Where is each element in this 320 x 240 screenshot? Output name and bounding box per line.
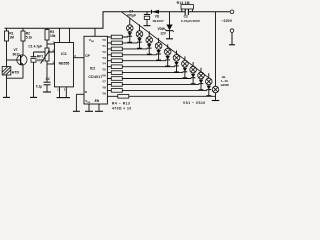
resistor R3 <box>45 30 49 41</box>
wire output line Y5 <box>107 66 174 68</box>
resistor R13 <box>111 89 122 93</box>
lamp HL8 <box>192 62 194 66</box>
wire gate VS6 <box>173 66 176 67</box>
thyristor VS7 <box>184 66 186 69</box>
wire RP1 to C2 <box>46 61 48 82</box>
thyristor VS8 <box>192 72 194 75</box>
timer U IC1 NE555 <box>55 43 74 87</box>
svg-text:IC2: IC2 <box>90 67 96 71</box>
resistor R6 <box>111 47 122 51</box>
wire rail to lamp HL <box>215 12 217 86</box>
resistor R1 <box>5 31 9 41</box>
svg-text:1N4007: 1N4007 <box>152 19 164 23</box>
svg-text:≤20W: ≤20W <box>221 83 229 87</box>
lamp HL (common) <box>212 86 219 93</box>
counter U IC2 CD4017 <box>84 36 107 104</box>
junction cathode VS8 <box>191 83 196 85</box>
ground (HTD) <box>3 96 10 98</box>
wire R1 node to VT base <box>7 59 21 61</box>
wire cathode VS8 <box>192 78 194 85</box>
wire C1 to ground <box>33 62 35 97</box>
svg-text:470μF: 470μF <box>127 13 136 17</box>
thyristor VS6 <box>176 60 178 63</box>
svg-text:CD4017: CD4017 <box>88 75 102 79</box>
wire C1 top <box>33 52 35 57</box>
svg-text:IC1: IC1 <box>61 52 67 56</box>
wire R3 to RP1 <box>46 40 48 48</box>
svg-text:C2: C2 <box>46 77 50 81</box>
wire cathode VS6 <box>176 66 178 73</box>
svg-text:EN: EN <box>95 99 100 103</box>
resistor R7 <box>111 53 122 57</box>
svg-text:CP: CP <box>85 54 90 58</box>
resistor R10 <box>111 71 122 75</box>
diode VD 1N4007 <box>152 10 159 14</box>
wire cathode VS1 <box>129 36 131 43</box>
thyristor VS4 <box>158 48 160 51</box>
svg-text:15k: 15k <box>50 34 56 38</box>
ground (R pin) <box>73 110 80 112</box>
capacitor C1 (electrolytic) <box>31 56 37 58</box>
resistor R9 <box>111 65 122 69</box>
svg-text:Y1: Y1 <box>102 44 106 48</box>
thyristor VS5 <box>167 54 169 57</box>
wire gate VS9 <box>197 84 200 85</box>
svg-text:Y6: Y6 <box>102 74 106 78</box>
lamp HL1 <box>129 18 131 25</box>
ground (VDW) <box>166 38 173 40</box>
wire cathode VS7 <box>184 72 186 79</box>
lamp HL5 <box>167 44 169 48</box>
svg-text:VDW: VDW <box>158 27 165 31</box>
wire node to IC1 pin 7 <box>47 43 55 45</box>
zener diode VDW 12V <box>169 12 171 25</box>
wire output line Y1 <box>107 42 137 44</box>
resistor R4 <box>111 35 122 39</box>
wire cathode VS3 <box>148 48 150 55</box>
ground (C2) <box>43 91 51 93</box>
junction cathode VS9 <box>199 89 204 91</box>
svg-text:5.1k: 5.1k <box>26 36 33 40</box>
AC terminal bottom prong <box>230 29 234 33</box>
capacitor C3 0.47uF/400V (series) <box>184 9 186 15</box>
wire R3 top stub <box>46 28 48 29</box>
ground (IC1 pin1) <box>57 97 71 99</box>
thyristor VS2 <box>139 36 141 39</box>
wire IC1 pin4 stub to rail <box>59 28 61 42</box>
wire VT emitter to HTD stem <box>7 77 24 79</box>
junction cathode VS2 <box>137 47 142 49</box>
wire node to IC1 pin 2 <box>47 63 55 65</box>
ground (C4) <box>144 25 151 27</box>
lamp HL7 <box>184 56 186 60</box>
svg-text:C1 4.7μF: C1 4.7μF <box>28 45 42 49</box>
svg-text:VS1 ~ VS10: VS1 ~ VS10 <box>183 101 206 105</box>
potentiometer RP1 <box>45 48 49 61</box>
svg-text:Y3: Y3 <box>102 56 106 60</box>
thyristor VS3 <box>148 42 150 45</box>
junction cathode VS4 <box>156 59 161 61</box>
wire R1 bottom to HTD <box>6 41 8 67</box>
ground (EN) <box>95 110 103 112</box>
thyristor VS10 <box>208 84 210 87</box>
wire R1 top stub <box>6 28 8 31</box>
wire gate VS10 <box>205 90 208 91</box>
svg-text:Y9: Y9 <box>102 91 106 95</box>
wire gate VS7 <box>181 72 184 73</box>
resistor R11 <box>111 77 122 81</box>
junction cathode VS1 <box>127 41 132 43</box>
wire cathode VS5 <box>167 60 169 67</box>
wire gate VS8 <box>190 78 193 79</box>
wire gate VS5 <box>164 60 167 61</box>
junction cathode VS10 <box>206 95 211 97</box>
wire output line Y7 <box>107 78 190 80</box>
svg-text:0.1μ: 0.1μ <box>36 85 42 89</box>
wire gate VS3 <box>146 48 149 49</box>
resistor R8 <box>111 59 122 63</box>
svg-text:470Ω × 10: 470Ω × 10 <box>112 107 132 111</box>
lamp HL4 <box>158 38 160 43</box>
wire C2 to ground <box>46 85 48 92</box>
svg-text:R14 1M: R14 1M <box>177 1 190 5</box>
svg-text:Y0: Y0 <box>102 38 106 42</box>
svg-text:NE555: NE555 <box>59 62 70 66</box>
wire lamp HL to ground <box>215 93 217 101</box>
svg-text:Y2: Y2 <box>102 50 106 54</box>
resistor R5 <box>111 41 122 45</box>
svg-text:1M: 1M <box>9 36 14 40</box>
lamp HL3 <box>148 31 150 36</box>
ground (VSS) <box>85 110 93 112</box>
RP1 wiper arrow <box>41 51 50 64</box>
svg-text:Y5: Y5 <box>102 68 106 72</box>
wire diagonal lamp supply bus <box>122 12 209 78</box>
wire output line Y0 <box>107 36 127 38</box>
wire IC2 EN stub <box>98 104 100 111</box>
transistor VT (NPN) <box>22 41 24 55</box>
buzzer HTD <box>2 67 11 76</box>
wire output line Y9 <box>107 89 206 91</box>
lamp HL2 <box>139 25 141 31</box>
wire +V rail (left y=28.3, top y=11.8) <box>5 12 231 29</box>
wire cathode VS4 <box>158 54 160 61</box>
thyristor VS1 <box>129 30 131 33</box>
wire output line Y4 <box>107 60 165 62</box>
resistor (bus) <box>118 95 129 99</box>
resistor R14 1M <box>181 5 193 9</box>
wire cathode VS10 <box>208 90 210 97</box>
ground (C1) <box>30 96 37 98</box>
wire IC2 VSS stub <box>88 104 90 111</box>
resistor R2 <box>21 31 25 41</box>
wire cathode VS9 <box>200 84 202 91</box>
wire output line Y2 <box>107 48 147 50</box>
wire C1 node to IC1 pin 6 <box>34 51 55 53</box>
svg-text:HTD: HTD <box>12 71 20 75</box>
svg-text:Y7: Y7 <box>102 80 106 84</box>
svg-text:R4 ~ R13: R4 ~ R13 <box>112 101 130 105</box>
lamp HL9 <box>200 68 202 73</box>
lamp HL10 <box>208 73 210 78</box>
wire output line Y3 <box>107 54 156 56</box>
svg-text:0.47μF/400V: 0.47μF/400V <box>181 19 201 23</box>
wire IC2 VDD stub to rail <box>94 28 96 36</box>
lamp HL6 <box>176 51 178 55</box>
AC terminal top <box>230 10 234 14</box>
wire HTD to ground <box>6 75 8 97</box>
wire output line Y8 <box>107 83 198 85</box>
wire R2 top stub <box>22 28 24 31</box>
svg-text:~220V: ~220V <box>221 19 232 23</box>
wire output line Y6 <box>107 72 182 74</box>
svg-text:Y8: Y8 <box>102 85 106 89</box>
junction cathode VS6 <box>174 71 179 73</box>
thyristor VS9 <box>200 78 202 81</box>
resistor R12 <box>111 83 122 87</box>
junction cathode VS7 <box>183 77 188 79</box>
wire gate VS4 <box>155 54 158 55</box>
capacitor C2 <box>44 81 51 83</box>
svg-text:12V: 12V <box>160 31 167 35</box>
ground (HL) <box>212 100 219 102</box>
IC1 ground pins <box>59 87 61 98</box>
wire output line cathode bus <box>107 95 215 97</box>
wire VT emitter down <box>22 65 24 78</box>
junction cathode VS5 <box>165 65 170 67</box>
svg-text:470k: 470k <box>37 58 44 62</box>
wire gate VS1 <box>126 36 129 37</box>
wire cathode VS2 <box>139 42 141 49</box>
wire gate VS2 <box>136 42 139 43</box>
svg-text:Y4: Y4 <box>102 62 106 66</box>
junction cathode VS3 <box>147 53 152 55</box>
wire IC1 pin8 stub to rail <box>69 28 71 42</box>
wire IC1 pin3 to IC2 CP <box>74 57 85 59</box>
